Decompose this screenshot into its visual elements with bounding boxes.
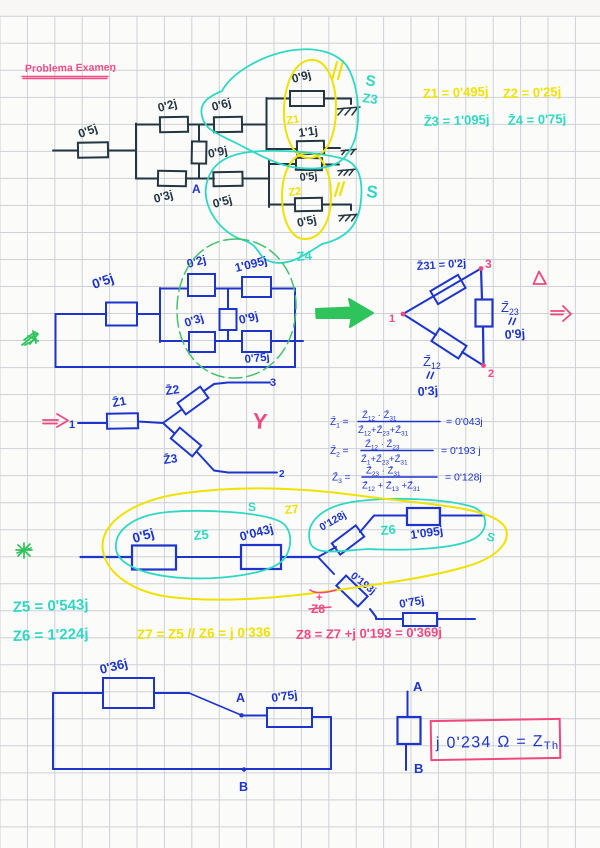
resistor 0'5j bottom-right bbox=[295, 198, 322, 211]
green scribble arrow left margin bbox=[22, 331, 38, 345]
yellow ellipse Z7 bbox=[103, 488, 507, 599]
svg-text:Z8 = Z7 +j 0'193 = 0'369j: Z8 = Z7 +j 0'193 = 0'369j bbox=[296, 624, 442, 642]
pink arrow to Y bbox=[43, 414, 68, 427]
resistor Zth bbox=[398, 717, 421, 744]
svg-text:Z̄3 = 1'095j: Z̄3 = 1'095j bbox=[424, 112, 490, 129]
wire bridge bottom c bbox=[271, 340, 303, 342]
wire bottom branch c to bus bbox=[243, 178, 269, 180]
wire resistor to right bbox=[312, 716, 331, 718]
right bus lower bbox=[268, 160, 270, 207]
svg-text:Z2: Z2 bbox=[288, 185, 302, 199]
svg-text:Y: Y bbox=[252, 408, 269, 434]
svg-text:B: B bbox=[239, 780, 248, 794]
wire delta side 1-3 bbox=[403, 269, 481, 315]
svg-text:1: 1 bbox=[69, 419, 75, 431]
pink delta symbol bbox=[534, 272, 547, 285]
wire Z5 entry bbox=[81, 556, 133, 558]
wire Z6 out bbox=[440, 515, 484, 517]
wire bottom branch b bbox=[186, 178, 214, 180]
svg-text:Z1 = 0'495j: Z1 = 0'495j bbox=[423, 84, 489, 101]
svg-text:Z̄1: Z̄1 bbox=[111, 394, 128, 410]
svg-text:Z6: Z6 bbox=[380, 522, 396, 538]
svg-text:= 0'193 j: = 0'193 j bbox=[441, 445, 481, 457]
wire top branch c to bus bbox=[242, 124, 266, 126]
wire top-right to ground bbox=[324, 99, 351, 105]
wire to split junction bbox=[108, 150, 136, 152]
svg-text:S: S bbox=[248, 500, 256, 514]
green big arrow bbox=[316, 299, 373, 327]
resistor Z23 delta bbox=[476, 300, 493, 327]
svg-text:Z5 = 0'543j: Z5 = 0'543j bbox=[13, 596, 89, 616]
node 3 delta bbox=[479, 266, 484, 271]
svg-text:Z2 = 0'25j: Z2 = 0'25j bbox=[503, 84, 562, 101]
ground G3 bbox=[338, 169, 355, 175]
wire Z2 to node3 bbox=[204, 383, 270, 392]
svg-text:Z1: Z1 bbox=[286, 113, 300, 127]
label Z12 parallel bbox=[427, 372, 434, 379]
wire to bottom-right resistor bbox=[269, 204, 295, 206]
wire Y node1 bbox=[78, 422, 107, 424]
svg-text:3: 3 bbox=[270, 377, 276, 389]
wire to 1'1j resistor bbox=[267, 148, 298, 150]
pink arrow right bbox=[551, 306, 571, 321]
wire top branch b bbox=[188, 124, 214, 126]
resistor 0'36j bbox=[103, 678, 154, 708]
junction vertical bus left bbox=[135, 124, 137, 179]
wire thevenin bottom bbox=[405, 745, 407, 771]
resistor 0'9j top-right bbox=[290, 91, 324, 106]
svg-text:0'5j: 0'5j bbox=[299, 170, 318, 184]
svg-text:= 0'043j: = 0'043j bbox=[446, 416, 483, 428]
wire bridge left return bbox=[55, 314, 57, 367]
resistor Z1 Y bbox=[107, 413, 138, 429]
svg-text:Z5: Z5 bbox=[193, 527, 209, 543]
resistor 0'043j Z5 bbox=[241, 545, 281, 569]
svg-text:B: B bbox=[414, 761, 423, 776]
ground G2 bbox=[341, 149, 356, 154]
svg-text:2: 2 bbox=[279, 469, 285, 480]
svg-text:Z̄3 =: Z̄3 = bbox=[332, 471, 351, 485]
svg-text:2: 2 bbox=[488, 368, 494, 380]
resistor 0'3j bbox=[158, 171, 186, 186]
resistor Z12 delta bbox=[431, 328, 466, 358]
wire Z5 mid bbox=[176, 556, 241, 558]
wire 1'1j to ground bbox=[324, 147, 340, 149]
wire to top resistor bbox=[267, 98, 291, 100]
wire Y center to Z2 bbox=[163, 410, 181, 423]
svg-text:Z̄1 =: Z̄1 = bbox=[330, 415, 349, 429]
ground G1 bbox=[337, 107, 360, 115]
pink result frame bbox=[431, 719, 561, 760]
svg-text:1: 1 bbox=[389, 313, 395, 325]
resistor 0'9j bridge middle bbox=[220, 309, 237, 330]
resistor Z3 Y bbox=[171, 428, 201, 457]
svg-text:Z3: Z3 bbox=[362, 90, 379, 107]
wire bottom left vertical bbox=[52, 693, 54, 769]
resistor 1'095j bridge bbox=[242, 277, 271, 297]
resistor 0'128j bbox=[332, 525, 364, 554]
svg-text:.: . bbox=[112, 61, 115, 75]
wire bridge bottom a bbox=[160, 340, 189, 342]
resistor 0'2j bridge bbox=[188, 274, 215, 296]
svg-text:Z̄4 = 0'75j: Z̄4 = 0'75j bbox=[508, 111, 567, 128]
resistor 0'5j top-left bbox=[78, 142, 108, 158]
wire bridge bottom return bbox=[56, 366, 296, 368]
resistor 0'75j bottom bbox=[267, 708, 312, 727]
wire bridge to split bbox=[138, 313, 161, 315]
node 1 delta bbox=[401, 312, 406, 317]
resistor 0'75j bridge bbox=[242, 331, 271, 352]
cyan ellipse Z6 bbox=[309, 499, 485, 552]
svg-text:Problema Examen: Problema Examen bbox=[25, 61, 116, 75]
wire thevenin top bbox=[407, 692, 409, 718]
resistor 0'5j third bbox=[296, 158, 322, 170]
resistor 1'1j bbox=[297, 141, 324, 154]
right bus upper bbox=[266, 98, 268, 150]
resistor 0'2j bbox=[160, 117, 188, 132]
wire Z3 to node2 bbox=[197, 452, 277, 473]
resistor 0'5j bottom-mid bbox=[213, 172, 242, 187]
svg-text:S: S bbox=[366, 182, 379, 202]
ground G4 bbox=[339, 214, 359, 221]
cyan blob S lower bbox=[206, 151, 362, 263]
resistor 0'6j bbox=[214, 117, 242, 132]
svg-text:A: A bbox=[413, 679, 423, 694]
wire Z8 out bbox=[437, 618, 475, 620]
node B dot bbox=[242, 767, 246, 771]
wire bridge mid stub top bbox=[227, 289, 229, 310]
green dashed ellipse around bridge bbox=[177, 239, 296, 378]
svg-text:Z7: Z7 bbox=[284, 502, 299, 517]
wire bridge mid stub bottom bbox=[227, 330, 229, 341]
wire Z5 to junction bbox=[281, 556, 318, 558]
resistor 0'5j Z5 bbox=[132, 546, 176, 570]
svg-text:3: 3 bbox=[485, 257, 492, 271]
svg-text:Z6 = 1'224j: Z6 = 1'224j bbox=[13, 625, 89, 645]
svg-text:Z̄2: Z̄2 bbox=[164, 382, 180, 398]
wire top branch a bbox=[136, 124, 160, 126]
bridge left bus bbox=[159, 288, 161, 342]
bridge right bus bbox=[294, 289, 296, 368]
label Z23 parallel bbox=[509, 318, 516, 325]
wire bottom top-left bbox=[53, 692, 103, 694]
wire bridge top b bbox=[215, 288, 242, 290]
wire bottom right vertical bbox=[330, 717, 332, 769]
resistor Z2 Y bbox=[178, 387, 209, 415]
cyan ellipse Z5 bbox=[116, 511, 290, 578]
wire bridge top a bbox=[160, 288, 188, 290]
wire box to switch bbox=[154, 692, 189, 694]
wire to 0'5j third bbox=[269, 163, 296, 165]
wire bridge bottom b bbox=[215, 340, 242, 342]
svg-text:Z7 = Z5 // Z6 = j 0'336: Z7 = Z5 // Z6 = j 0'336 bbox=[137, 625, 272, 642]
svg-text:0'3j: 0'3j bbox=[417, 384, 438, 399]
node A dot bbox=[239, 713, 243, 717]
green asterisk bbox=[16, 543, 32, 558]
wire bridge entry bbox=[56, 313, 107, 315]
wire bridge top c bbox=[271, 288, 295, 290]
svg-text:Z̄3: Z̄3 bbox=[162, 451, 178, 467]
wire middle element bottom stub bbox=[198, 164, 200, 179]
wire delta side 1-2 bbox=[403, 314, 484, 366]
yellow ellipse Z2 group bbox=[282, 153, 331, 239]
pink plus Z8 mark bbox=[310, 590, 336, 593]
wire A to resistor bbox=[242, 715, 268, 717]
resistor 0'3j bridge bbox=[189, 332, 215, 352]
wire junction up diagonal a bbox=[318, 547, 336, 557]
resistor Z31 delta bbox=[430, 275, 465, 304]
svg-text:= 0'128j: = 0'128j bbox=[445, 472, 482, 484]
resistor 0'193j bbox=[336, 576, 367, 607]
wire Y box to center bbox=[138, 422, 163, 424]
resistor 0'75j Z8 bbox=[403, 613, 437, 626]
wire bottom return bbox=[53, 768, 331, 770]
svg-text:0'9j: 0'9j bbox=[504, 327, 525, 342]
wire middle element top stub bbox=[198, 125, 200, 142]
wire junction down diagonal b bbox=[370, 609, 403, 619]
node 2 delta bbox=[481, 363, 486, 368]
yellow ellipse Z1 group bbox=[284, 60, 336, 158]
svg-text:Z̄2 =: Z̄2 = bbox=[330, 444, 349, 458]
wire entry left bbox=[53, 150, 78, 152]
resistor 0'9j middle bbox=[192, 141, 207, 163]
resistor 1'095j Z6 bbox=[407, 508, 440, 525]
wire delta side 2-3 bbox=[481, 269, 484, 366]
wire junction up diagonal b bbox=[360, 516, 407, 533]
wire junction down diagonal a bbox=[318, 557, 334, 574]
svg-text:1'1j: 1'1j bbox=[297, 123, 318, 140]
svg-text:A: A bbox=[192, 182, 201, 196]
cyan blob S upper bbox=[201, 49, 358, 168]
svg-text:Z4: Z4 bbox=[296, 248, 313, 264]
yellow parallel marks upper bbox=[332, 61, 343, 80]
resistor 0'5j bridge bbox=[106, 303, 137, 326]
wire third to ground bbox=[322, 164, 339, 166]
wire Y center to Z3 bbox=[163, 423, 174, 433]
yellow parallel marks lower bbox=[335, 182, 344, 196]
wire bottom-right to ground bbox=[322, 205, 351, 211]
wire bottom branch a bbox=[136, 178, 158, 180]
svg-text:A: A bbox=[236, 691, 245, 705]
switch blade wire bbox=[189, 693, 241, 715]
